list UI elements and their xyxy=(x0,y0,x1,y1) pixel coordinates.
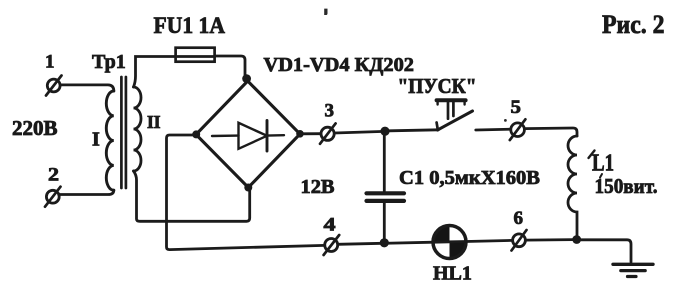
terminal 2 xyxy=(45,187,61,207)
wire terminal 4 to lamp xyxy=(338,242,434,244)
svg-text:4: 4 xyxy=(324,215,337,236)
svg-text:150вит.: 150вит. xyxy=(595,174,658,198)
transformer secondary winding II xyxy=(134,87,142,171)
svg-text:HL1: HL1 xyxy=(433,263,472,285)
svg-text:5: 5 xyxy=(511,97,521,118)
capacitor C1 xyxy=(367,131,405,240)
fuse FU1 xyxy=(176,48,215,62)
wire lamp to terminal 6 xyxy=(466,240,513,241)
wire secondary top to fuse xyxy=(134,57,176,88)
ground xyxy=(613,264,653,276)
junction dot C1 bottom xyxy=(380,238,389,247)
push button ПУСК xyxy=(437,100,473,130)
terminal 4 xyxy=(324,235,340,255)
stray mark (comma) xyxy=(324,9,327,15)
svg-text:220В: 220В xyxy=(12,116,58,140)
svg-text:"ПУСК": "ПУСК" xyxy=(398,74,477,98)
svg-text:L1: L1 xyxy=(592,151,614,177)
wire junction to button xyxy=(390,130,439,131)
wire terminal 5 to coil L1 top xyxy=(525,128,577,136)
junction node top of C1 xyxy=(380,127,389,136)
junction dot bridge top corner xyxy=(242,74,251,83)
svg-text:I: I xyxy=(92,129,100,151)
junction dot bridge left corner xyxy=(192,130,200,138)
inductor L1 xyxy=(568,136,577,236)
stray tick above L1 xyxy=(589,151,595,159)
wire fuse to bridge top xyxy=(215,56,245,77)
svg-text:3: 3 xyxy=(325,101,335,122)
svg-text:2: 2 xyxy=(48,165,59,186)
terminal 5 xyxy=(510,119,526,140)
stray apostrophe over 150вит xyxy=(600,174,602,178)
svg-text:1: 1 xyxy=(45,52,55,73)
wire bridge left corner to bottom rail xyxy=(167,135,325,250)
stray dot near terminal 5 xyxy=(504,119,507,122)
wire terminal 6 to L1 bottom junction xyxy=(525,238,573,241)
junction dot L1 bottom xyxy=(572,235,581,244)
transformer core xyxy=(121,77,126,188)
diode symbol inside bridge xyxy=(212,121,284,152)
bridge rectifier VD1-VD4 diamond xyxy=(196,81,300,188)
svg-text:Рис. 2: Рис. 2 xyxy=(602,9,665,39)
terminal 1 xyxy=(46,76,62,96)
svg-text:FU1 1A: FU1 1A xyxy=(154,13,226,39)
svg-text:II: II xyxy=(147,112,161,132)
wire bridge right corner to terminal 3 xyxy=(300,132,321,135)
terminal 6 xyxy=(512,230,527,251)
wire terminal 3 to junction xyxy=(335,132,382,134)
svg-text:6: 6 xyxy=(514,208,524,229)
svg-text:С1 0,5мкХ160В: С1 0,5мкХ160В xyxy=(399,167,540,189)
wire L1 bottom to ground xyxy=(577,240,631,262)
svg-text:12В: 12В xyxy=(301,176,335,198)
junction dot bridge bottom corner xyxy=(244,184,252,192)
wire button to terminal 5 xyxy=(476,128,511,132)
terminal 3 xyxy=(320,123,336,143)
svg-text:VD1-VD4 КД202: VD1-VD4 КД202 xyxy=(264,54,415,76)
svg-text:Тр1: Тр1 xyxy=(92,51,126,73)
wire secondary bottom to bridge bottom corner xyxy=(134,171,250,221)
junction dot bridge right corner xyxy=(296,130,304,138)
lamp HL1 xyxy=(433,225,466,258)
transformer T1 primary winding I xyxy=(106,91,114,190)
wire primary bottom to terminal 2 xyxy=(60,190,114,194)
wire terminal1 to primary top xyxy=(61,85,114,91)
